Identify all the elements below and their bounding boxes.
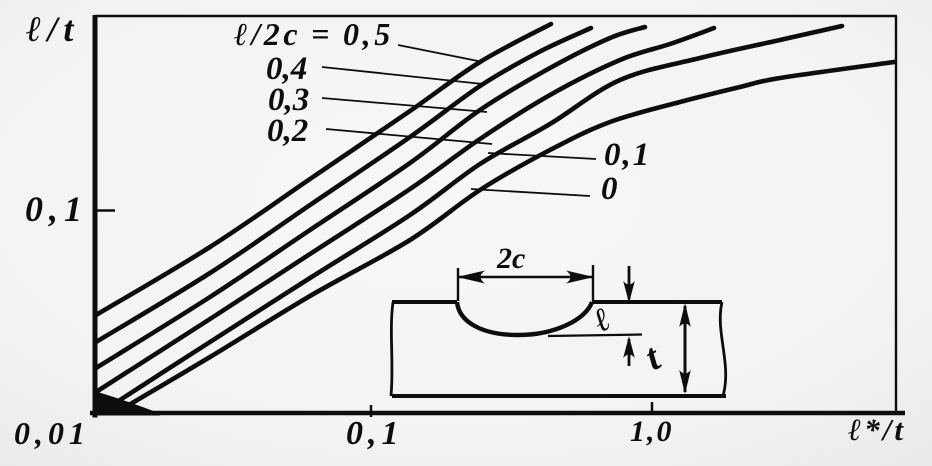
- right border: [895, 16, 897, 413]
- svg-text:0: 0: [601, 171, 618, 207]
- plate right break edge: [720, 302, 725, 396]
- plate top edge: [392, 300, 722, 304]
- corner ink blob: [94, 391, 160, 416]
- y-axis: [93, 15, 98, 418]
- svg-text:2c: 2c: [496, 242, 525, 275]
- l arrowhead up: [623, 336, 635, 358]
- curve 0,5: [96, 24, 551, 315]
- top border: [95, 15, 897, 17]
- depth level line: [548, 335, 642, 337]
- extension line right 2c: [592, 265, 594, 301]
- curve 0,2: [96, 28, 714, 392]
- svg-text:0,1: 0,1: [604, 137, 651, 173]
- plate left break edge: [391, 302, 393, 396]
- 2c arrowhead left: [457, 271, 485, 284]
- svg-text:0,1: 0,1: [25, 189, 88, 229]
- leader line for 0,3: [322, 98, 487, 112]
- inset plate cross-section: [391, 265, 726, 396]
- svg-text:1,0: 1,0: [630, 415, 674, 448]
- leader line for 0,4: [322, 67, 483, 84]
- curve 0,3: [96, 27, 645, 368]
- plate bottom edge: [392, 394, 726, 398]
- crack semi-ellipse: [457, 302, 592, 335]
- tick y 0,1: [94, 209, 115, 212]
- t arrowhead top: [679, 303, 691, 327]
- svg-text:ℓ/t: ℓ/t: [26, 9, 79, 49]
- x-axis: [90, 411, 905, 416]
- svg-text:0,1: 0,1: [346, 415, 404, 452]
- curve 0,1: [106, 26, 842, 409]
- tick x 0,1: [370, 405, 373, 417]
- leader line for 0,2: [326, 129, 492, 144]
- l dim lower arrow shaft: [628, 339, 631, 366]
- curve 0,4: [96, 28, 591, 342]
- l arrowhead down: [623, 281, 635, 303]
- leader line for 0,1: [488, 153, 596, 159]
- l dim upper arrow shaft: [628, 266, 631, 299]
- leader line for 0,5: [398, 45, 478, 61]
- extension line left 2c: [457, 268, 459, 301]
- t dimension shaft: [684, 306, 687, 392]
- svg-text:ℓ*/t: ℓ*/t: [848, 412, 906, 447]
- t arrowhead bottom: [679, 370, 691, 394]
- 2c dimension line: [459, 276, 592, 278]
- tick x 1,0: [651, 402, 654, 415]
- svg-text:0,01: 0,01: [14, 415, 90, 451]
- svg-text:0,2: 0,2: [267, 113, 308, 149]
- svg-text:ℓ/2c = 0,5: ℓ/2c = 0,5: [234, 16, 394, 52]
- leader line for 0: [471, 189, 590, 196]
- 2c arrowhead right: [566, 271, 594, 284]
- curve 0: [122, 62, 894, 409]
